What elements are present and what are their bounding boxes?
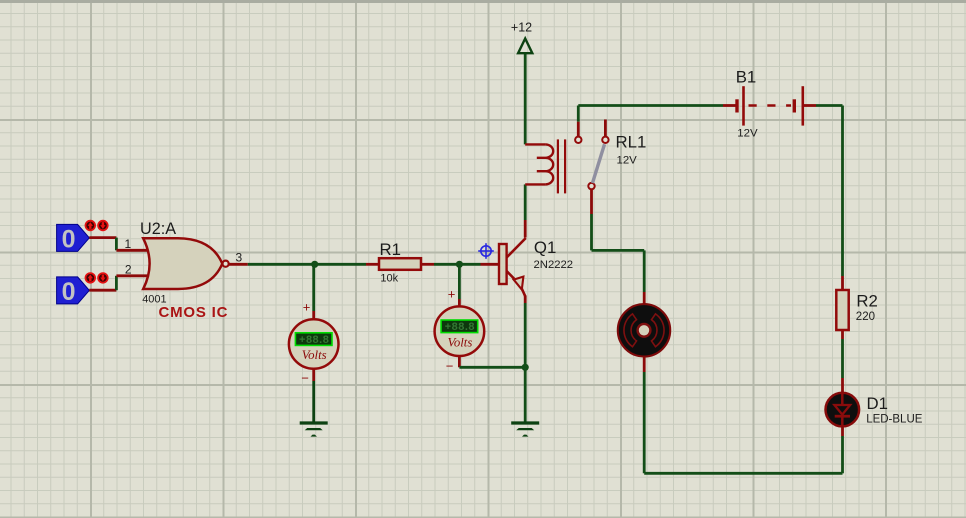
svg-text:+: + xyxy=(303,300,311,315)
svg-text:Volts: Volts xyxy=(447,335,472,349)
svg-text:R1: R1 xyxy=(380,240,401,259)
svg-text:10k: 10k xyxy=(380,272,398,284)
svg-text:2: 2 xyxy=(125,263,132,277)
svg-text:−: − xyxy=(301,371,309,386)
svg-text:LED-BLUE: LED-BLUE xyxy=(866,413,923,425)
svg-text:B1: B1 xyxy=(736,67,757,86)
svg-text:2N2222: 2N2222 xyxy=(534,259,574,271)
svg-text:Volts: Volts xyxy=(302,348,327,362)
svg-text:RL1: RL1 xyxy=(616,132,647,151)
svg-text:R2: R2 xyxy=(856,291,877,310)
svg-text:0: 0 xyxy=(62,226,76,254)
svg-text:U2:A: U2:A xyxy=(140,220,176,238)
svg-text:12V: 12V xyxy=(737,128,758,140)
svg-text:0: 0 xyxy=(62,278,76,306)
svg-text:+12: +12 xyxy=(511,21,532,35)
svg-text:+: + xyxy=(448,287,456,302)
svg-text:12V: 12V xyxy=(617,155,638,167)
svg-text:3: 3 xyxy=(236,250,243,264)
svg-text:+88.8: +88.8 xyxy=(445,321,475,333)
svg-text:220: 220 xyxy=(856,311,875,323)
svg-text:D1: D1 xyxy=(867,394,888,413)
svg-text:1: 1 xyxy=(125,237,132,251)
svg-text:+88.8: +88.8 xyxy=(299,334,329,346)
svg-text:CMOS IC: CMOS IC xyxy=(159,304,229,321)
svg-text:−: − xyxy=(446,359,454,374)
svg-text:Q1: Q1 xyxy=(534,238,556,257)
